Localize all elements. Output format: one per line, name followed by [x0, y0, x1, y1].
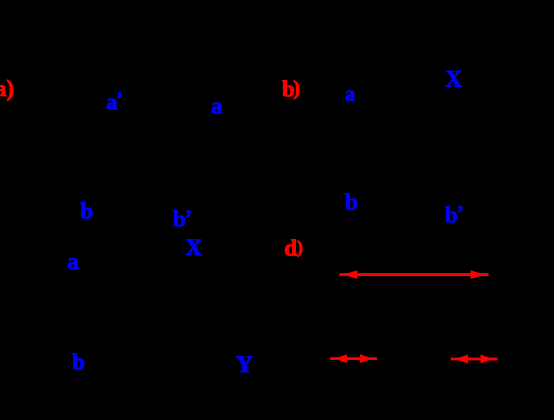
svg-text:b’: b’: [445, 202, 464, 228]
long double-headed arrow (panel d, top distance marker): [340, 270, 489, 279]
svg-text:a): a): [0, 76, 14, 101]
svg-text:X: X: [185, 235, 202, 260]
short double-headed arrow (panel d, lower left distance marker): [330, 354, 377, 363]
svg-text:X: X: [445, 67, 462, 92]
svg-text:Y: Y: [236, 352, 253, 377]
svg-text:b’: b’: [173, 206, 192, 232]
svg-text:a: a: [211, 94, 223, 119]
svg-text:a’: a’: [106, 89, 123, 114]
svg-text:b: b: [345, 190, 358, 215]
svg-text:d): d): [284, 236, 303, 261]
svg-text:b): b): [282, 76, 300, 101]
svg-text:b: b: [72, 349, 85, 374]
svg-text:a: a: [67, 249, 79, 274]
short double-headed arrow (panel d, lower right distance marker): [451, 355, 498, 364]
svg-text:b: b: [80, 198, 93, 223]
svg-text:a: a: [345, 83, 355, 105]
